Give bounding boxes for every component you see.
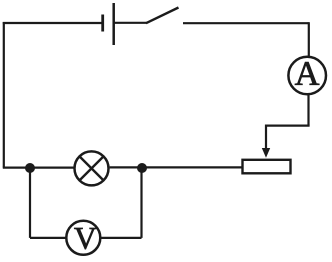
voltmeter V circle [66,221,100,255]
wire left vertical [3,22,5,168]
wire right vertical to ammeter [308,22,310,56]
junction node left (dot) [25,163,35,173]
wire horizontal above rheostat [266,124,310,126]
wire mid-left (corner to lamp) [3,167,74,169]
ammeter A circle [288,57,326,95]
lamp L1 circle [75,151,109,185]
battery B1 long plate (positive) [112,3,115,45]
wire bottom-left horizontal [30,237,67,239]
wire top-left horizontal [3,22,102,24]
wire vertical to rheostat arrow [265,125,267,150]
junction node right (dot) [137,163,147,173]
wire left branch vertical [29,168,31,238]
ammeter A label [295,62,319,85]
wire right branch vertical [140,168,142,238]
lamp L1 cross stroke 1 [80,156,104,180]
wire ammeter to corner [307,95,309,126]
lamp L1 cross stroke 2 [80,156,104,180]
wire mid-right (lamp to rheostat) [110,166,243,168]
wire switch to top-right corner [183,22,309,24]
battery B1 short plate (negative) [101,15,104,32]
voltmeter V label [74,228,96,249]
wire bottom-right horizontal [100,237,141,239]
rheostat R box [243,160,291,174]
switch S1 lever (open) [146,8,179,24]
wire battery to switch [114,22,147,24]
rheostat arrowhead [262,148,270,158]
